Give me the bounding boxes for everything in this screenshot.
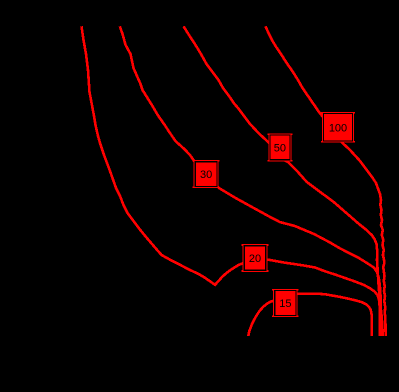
contour curve 30 bbox=[120, 26, 381, 336]
label box 50 bbox=[267, 133, 292, 161]
contour curve 100 bbox=[266, 26, 386, 336]
label box 20 bbox=[242, 244, 269, 272]
label box 30 bbox=[193, 160, 220, 188]
contour curve 15 bbox=[248, 294, 371, 336]
svg-text:20: 20 bbox=[249, 253, 261, 265]
contour curve 20 bbox=[82, 26, 381, 336]
svg-text:100: 100 bbox=[329, 122, 347, 134]
svg-text:50: 50 bbox=[274, 142, 286, 154]
svg-text:15: 15 bbox=[279, 298, 291, 310]
contour curve 50 bbox=[184, 26, 383, 336]
label box 15 bbox=[272, 289, 299, 317]
svg-text:30: 30 bbox=[200, 169, 212, 181]
label box 100 bbox=[321, 112, 355, 143]
